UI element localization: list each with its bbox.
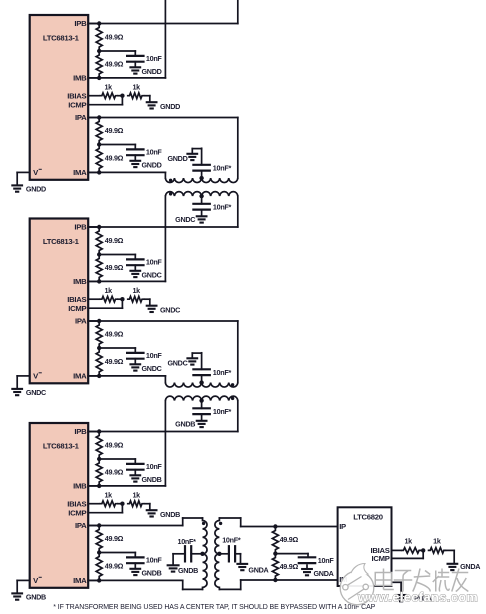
svg-text:ICMP: ICMP — [68, 508, 86, 517]
svg-text:1k: 1k — [104, 83, 112, 92]
svg-text:IBIAS: IBIAS — [67, 91, 86, 100]
svg-text:ICMP: ICMP — [68, 100, 86, 109]
svg-text:GNDA: GNDA — [314, 569, 334, 578]
svg-text:1k: 1k — [104, 286, 112, 295]
svg-text:GNDB: GNDB — [175, 420, 195, 429]
svg-text:IMB: IMB — [73, 277, 87, 286]
svg-text:IMB: IMB — [73, 74, 87, 83]
svg-text:IPB: IPB — [74, 19, 87, 28]
svg-text:1k: 1k — [132, 83, 140, 92]
svg-text:GNDD: GNDD — [160, 102, 180, 111]
svg-text:49.9Ω: 49.9Ω — [105, 154, 124, 163]
svg-text:IPA: IPA — [75, 113, 87, 122]
svg-text:49.9Ω: 49.9Ω — [280, 535, 299, 544]
svg-text:10nF: 10nF — [146, 555, 163, 564]
svg-text:10nF*: 10nF* — [213, 163, 232, 172]
svg-text:LTC6813-1: LTC6813-1 — [43, 442, 80, 451]
svg-text:IPA: IPA — [75, 521, 87, 530]
svg-text:GNDB: GNDB — [142, 568, 162, 577]
svg-text:IPB: IPB — [74, 223, 87, 232]
svg-text:49.9Ω: 49.9Ω — [105, 357, 124, 366]
svg-text:IMA: IMA — [73, 576, 87, 585]
svg-text:GNDC: GNDC — [167, 358, 187, 367]
svg-text:10nF*: 10nF* — [213, 368, 232, 377]
svg-text:1k: 1k — [132, 491, 140, 500]
svg-text:GNDB: GNDB — [160, 510, 180, 519]
svg-text:www.elecfans.com: www.elecfans.com — [357, 591, 478, 605]
svg-text:49.9Ω: 49.9Ω — [105, 236, 124, 245]
svg-text:* IF TRANSFORMER BEING USED HA: * IF TRANSFORMER BEING USED HAS A CENTER… — [53, 604, 375, 611]
svg-text:GNDC: GNDC — [142, 364, 162, 373]
svg-text:49.9Ω: 49.9Ω — [105, 468, 124, 477]
svg-text:10nF*: 10nF* — [213, 407, 232, 416]
svg-text:LTC6813-1: LTC6813-1 — [43, 34, 80, 43]
svg-text:GNDB: GNDB — [142, 475, 162, 484]
svg-text:GNDD: GNDD — [142, 67, 162, 76]
svg-text:GNDB: GNDB — [178, 566, 198, 575]
svg-text:49.9Ω: 49.9Ω — [105, 440, 124, 449]
svg-text:GNDC: GNDC — [175, 215, 195, 224]
svg-text:GNDD: GNDD — [167, 154, 187, 163]
svg-text:GNDD: GNDD — [26, 185, 46, 194]
svg-text:10nF*: 10nF* — [222, 535, 241, 544]
svg-text:LTC6813-1: LTC6813-1 — [43, 237, 80, 246]
svg-text:10nF: 10nF — [146, 351, 163, 360]
svg-text:10nF*: 10nF* — [213, 202, 232, 211]
svg-text:49.9Ω: 49.9Ω — [105, 263, 124, 272]
svg-text:GNDA: GNDA — [460, 562, 480, 571]
svg-text:IMA: IMA — [73, 168, 87, 177]
svg-text:GNDC: GNDC — [142, 270, 162, 279]
svg-text:GNDC: GNDC — [26, 388, 46, 397]
svg-text:ICMP: ICMP — [68, 304, 86, 313]
svg-text:IMB: IMB — [73, 482, 87, 491]
svg-text:ICMP: ICMP — [371, 554, 389, 563]
svg-text:LTC6820: LTC6820 — [353, 512, 383, 521]
svg-text:GNDC: GNDC — [160, 306, 180, 315]
svg-text:IMA: IMA — [73, 372, 87, 381]
svg-text:10nF*: 10nF* — [178, 537, 197, 546]
svg-text:49.9Ω: 49.9Ω — [105, 562, 124, 571]
svg-text:IBIAS: IBIAS — [67, 499, 86, 508]
svg-text:49.9Ω: 49.9Ω — [105, 126, 124, 135]
svg-text:49.9Ω: 49.9Ω — [105, 33, 124, 42]
svg-text:10nF: 10nF — [146, 147, 163, 156]
svg-text:IPA: IPA — [75, 317, 87, 326]
svg-text:GNDA: GNDA — [248, 566, 268, 575]
svg-text:10nF: 10nF — [146, 54, 163, 63]
svg-text:10nF: 10nF — [318, 556, 335, 565]
svg-text:10nF: 10nF — [146, 257, 163, 266]
svg-text:10nF: 10nF — [146, 462, 163, 471]
svg-text:GNDB: GNDB — [26, 593, 46, 602]
svg-text:1k: 1k — [433, 537, 441, 546]
svg-text:1k: 1k — [132, 286, 140, 295]
svg-text:IBIAS: IBIAS — [67, 295, 86, 304]
svg-text:49.9Ω: 49.9Ω — [280, 562, 299, 571]
svg-text:IP: IP — [339, 522, 346, 531]
svg-text:1k: 1k — [104, 491, 112, 500]
svg-text:49.9Ω: 49.9Ω — [105, 60, 124, 69]
svg-text:49.9Ω: 49.9Ω — [105, 330, 124, 339]
svg-text:1k: 1k — [404, 537, 412, 546]
svg-text:49.9Ω: 49.9Ω — [105, 534, 124, 543]
svg-text:IPB: IPB — [74, 427, 87, 436]
svg-text:GNDD: GNDD — [142, 160, 162, 169]
